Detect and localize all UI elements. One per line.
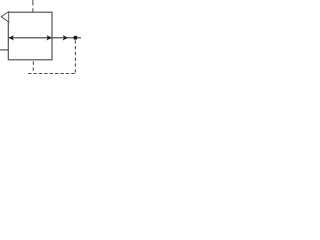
open arrowhead (input port triangle) on left edge (1, 12, 9, 22)
junction dot (73, 36, 77, 40)
wire (main signal line through box to right) (9, 37, 81, 39)
dashed line (top boundary, above box) (32, 0, 34, 12)
arrowhead left (at box left edge, pointing left) (9, 35, 14, 40)
dashed line (below box, vertical) (32, 61, 34, 73)
dashed line (bottom horizontal) (28, 73, 75, 75)
block (two-port section box) (8, 12, 52, 60)
wire (left input wire) (0, 49, 8, 51)
arrowhead middle (on external wire, pointing right) (63, 35, 68, 40)
arrowhead right (at box right edge, pointing right) (46, 35, 51, 40)
dashed line (right vertical, from junction dot down) (74, 40, 76, 73)
